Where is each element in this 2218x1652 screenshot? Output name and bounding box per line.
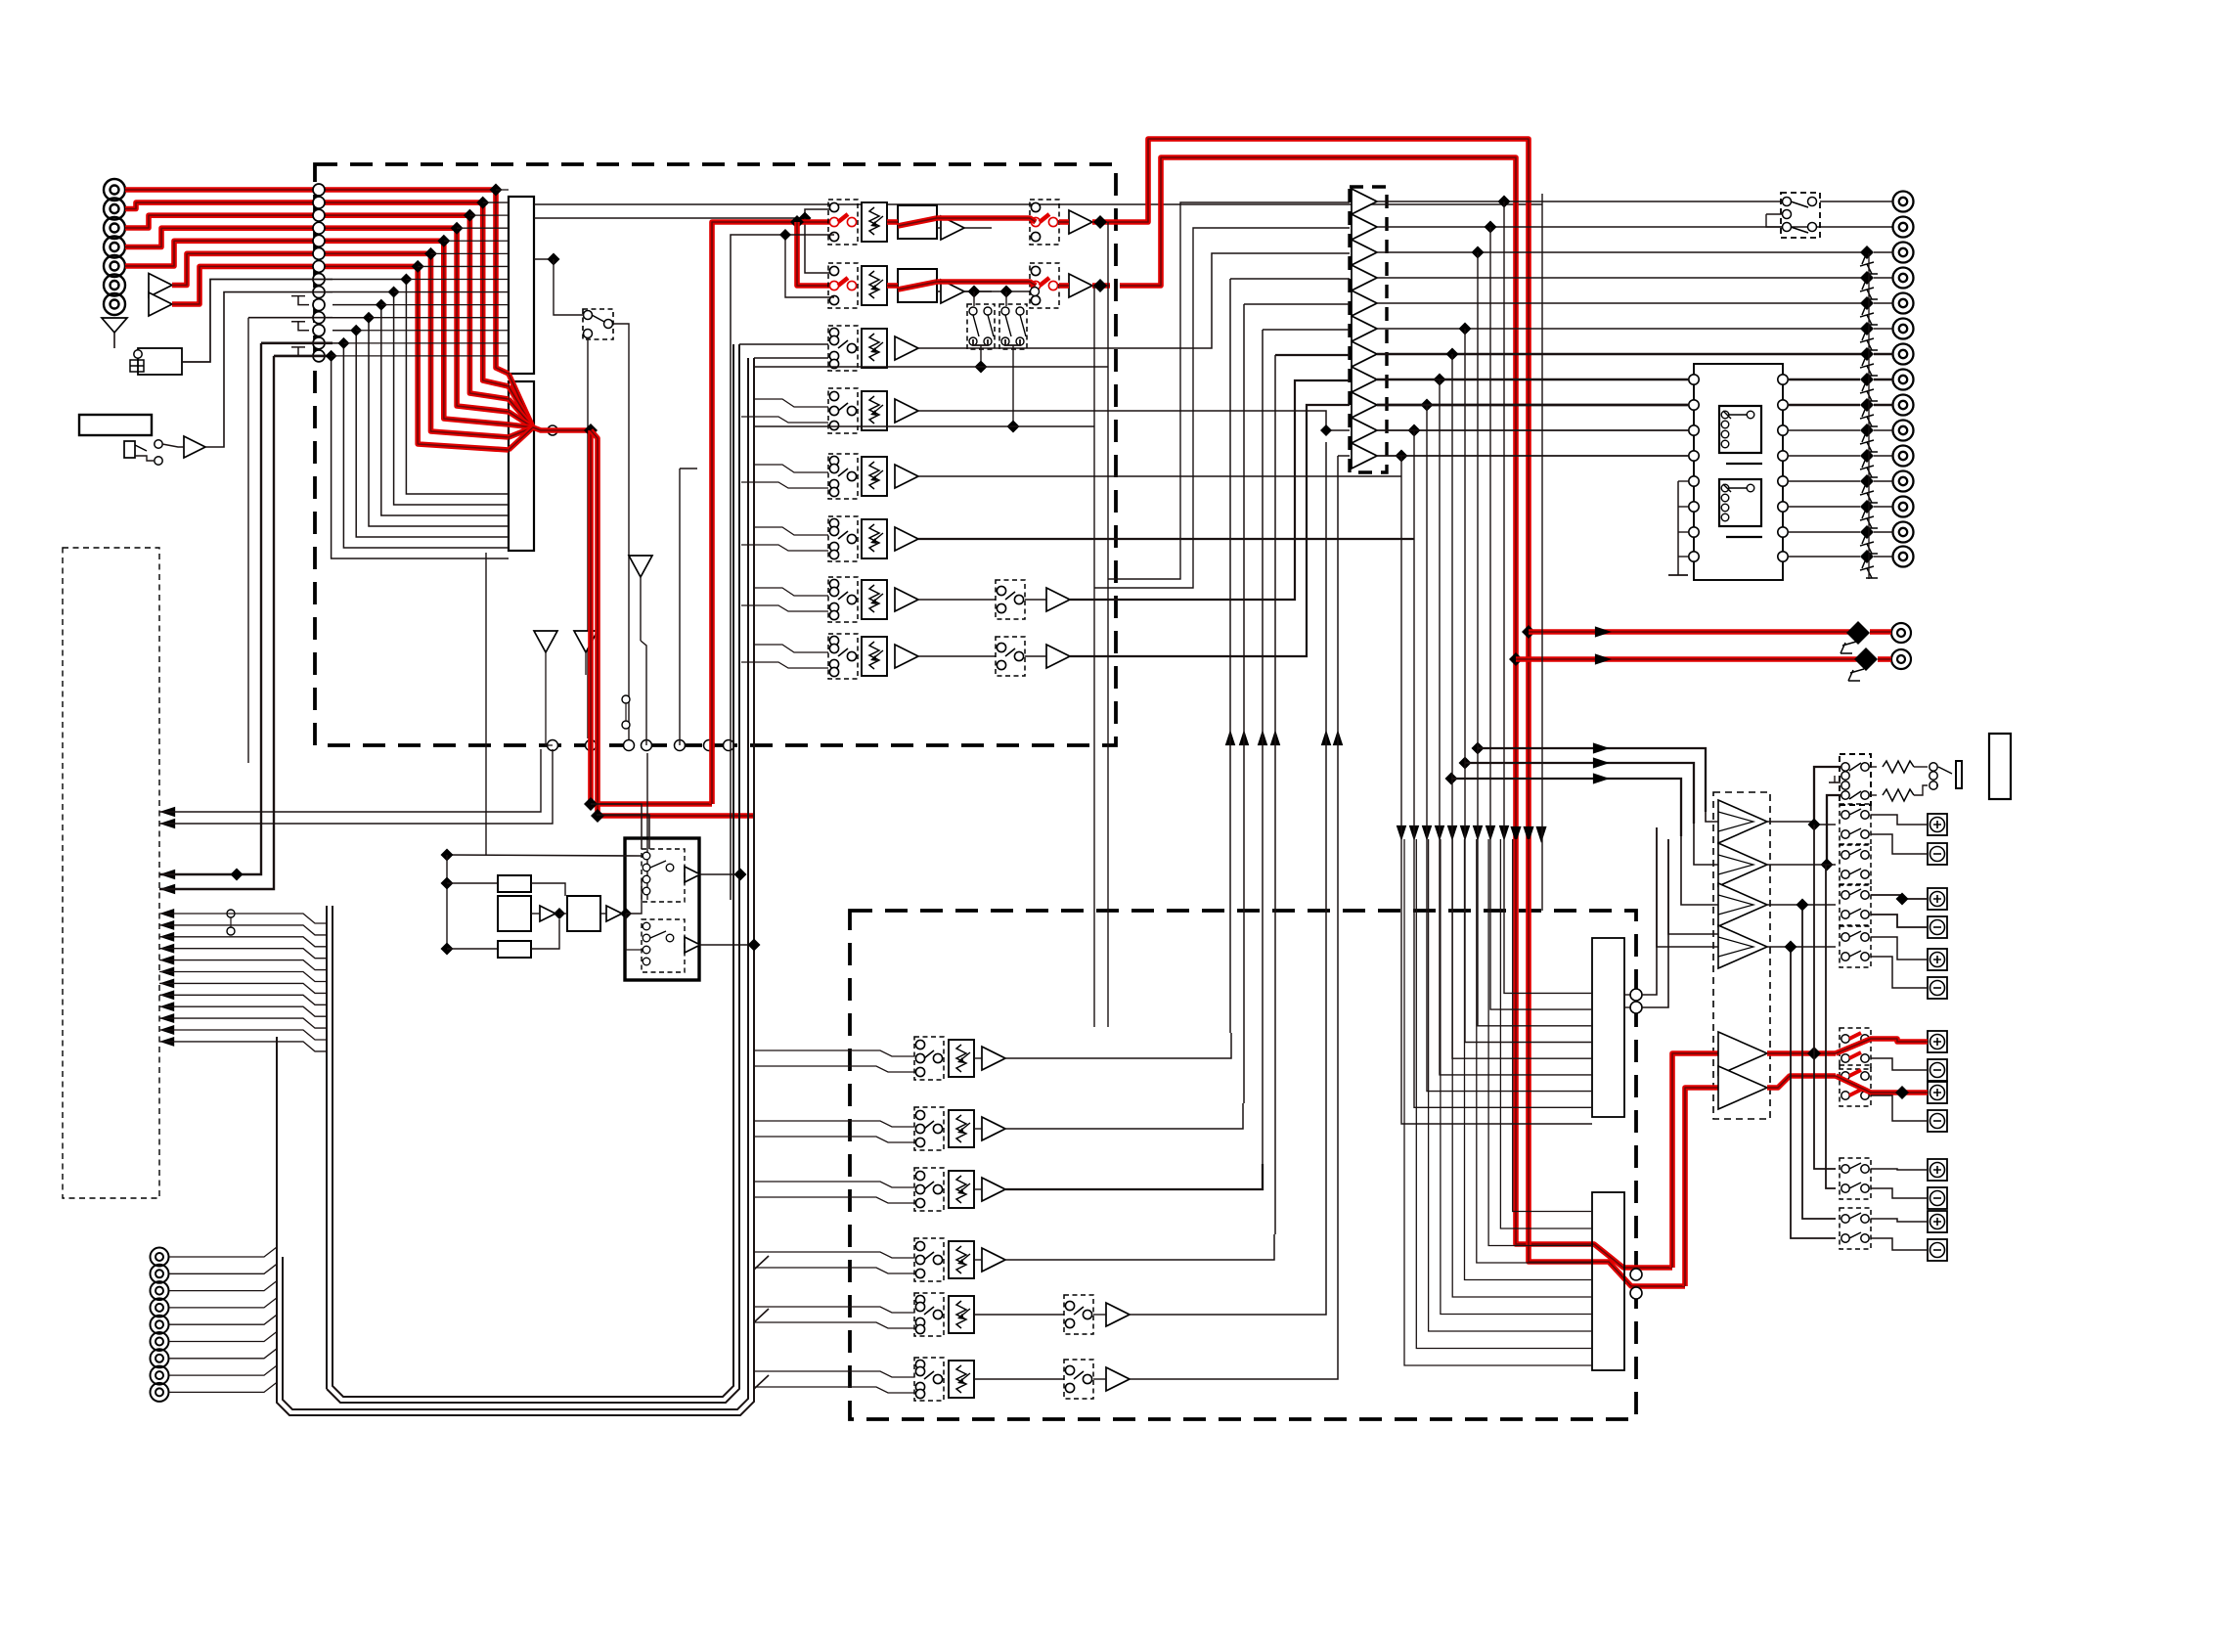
wire: feed tri1 — [1108, 202, 1350, 579]
output jack y=440 — [1893, 421, 1914, 441]
cable run outer edge2 — [283, 358, 748, 1409]
wire: vertical drop x=254 — [247, 318, 249, 763]
node: bus feedthrough 11 — [313, 312, 325, 324]
input jack J2 (phono/line) — [104, 199, 125, 220]
wire: tape in a6 — [755, 1371, 914, 1377]
wire: return to tri11 — [1338, 455, 1350, 457]
wire: tape mid 5 — [974, 1314, 1064, 1316]
rec amp 1 — [685, 867, 700, 882]
speaker switch row1 — [1840, 804, 1871, 845]
wire: buffer out row9 to relay box — [1377, 404, 1698, 406]
wire: bridge to term2- — [1871, 915, 1928, 927]
wire: M1 out riser 2 — [1642, 839, 1668, 1007]
remote jack R6 — [151, 1332, 169, 1351]
ground stub — [298, 322, 309, 331]
wire: rec feed top — [447, 855, 642, 856]
matrix box M2 — [1592, 1192, 1624, 1370]
wire: amp1 to sw — [1767, 822, 1836, 825]
power amp triangle red L — [1718, 1032, 1767, 1075]
wire: return to tri7 — [1275, 354, 1350, 356]
wire: ctl bus 1 — [159, 914, 327, 923]
balance box ch2 — [898, 269, 937, 302]
input select switch SW4 — [828, 388, 858, 433]
channel amp A7 — [895, 588, 918, 611]
muting switches pair 2 — [999, 304, 1027, 349]
red: riser to channel 1 — [712, 222, 834, 804]
tape select switch T6 — [914, 1358, 944, 1401]
wire: bus into M1 y=1032 — [1490, 227, 1592, 1009]
wire: tap to mute pair1 — [973, 291, 975, 306]
wire: remote 6 — [169, 1332, 277, 1342]
wire: tape return x=1304 — [1274, 355, 1276, 1234]
tape out amp 5 — [1106, 1303, 1130, 1326]
node: bus feedthrough 7 — [313, 260, 325, 272]
wire: ctl bus 2 — [159, 925, 327, 935]
function display rectangle — [79, 415, 152, 435]
red: to speaker terminal + R — [1767, 1076, 1836, 1088]
wire: tap into rect A — [483, 201, 509, 203]
wire: bus row8 into rect B — [333, 279, 509, 494]
wire: ch to aux switch — [918, 599, 996, 601]
wire: bus into M2 y=1273 — [1488, 839, 1592, 1246]
input select switch SW8 — [828, 634, 858, 679]
node: bus feedthrough 8 — [313, 273, 325, 285]
speaker terminal - 4 — [1928, 1059, 1947, 1081]
wire: rec riser to ch1 — [731, 235, 834, 900]
red: summed program to corner — [533, 427, 591, 430]
remote jack R1 — [151, 1248, 169, 1267]
muting switches pair 1 — [967, 304, 995, 349]
wire: tape out 2 — [1005, 1103, 1243, 1129]
node: bus feedthrough 12 — [313, 325, 325, 336]
power amp triangle 4 — [1718, 925, 1767, 968]
dashed box: monitor/tape block — [850, 911, 1636, 1419]
wire: return to tri5 — [1244, 303, 1350, 305]
wire: switch link — [1766, 214, 1782, 227]
level drop triangle 1 — [629, 556, 652, 577]
wire: remote 1 — [169, 1247, 277, 1257]
output switch SWB1 — [1030, 200, 1059, 245]
input select switch SW2 — [828, 263, 858, 308]
level drop triangle 2 — [534, 631, 557, 652]
matrix rect B (record select bank) — [509, 381, 534, 551]
wire: bus into M1 y=1015 — [1504, 201, 1592, 993]
wire: filler drop — [646, 753, 648, 900]
muting transistor row y=362 — [1860, 347, 1874, 361]
phono preamp box — [138, 348, 182, 375]
input jack J4 (phono/line) — [104, 237, 125, 258]
wire: tape mid 6 — [974, 1378, 1064, 1380]
record selector block — [625, 838, 699, 980]
output jack y=544 — [1893, 522, 1914, 543]
wire: ch to aux switch — [918, 655, 996, 657]
wire: bus into M1 y=1082 — [1452, 354, 1592, 1058]
rec select switch lower — [642, 919, 685, 972]
wire: ctl bus 9 — [159, 1006, 327, 1016]
speaker terminal - 6 — [1928, 1187, 1947, 1209]
wire: bus row10 into rect B — [333, 305, 509, 515]
speaker terminal - 2 — [1928, 916, 1947, 938]
wire: tape in a5 — [755, 1307, 914, 1313]
rec buffer 1 — [540, 906, 555, 921]
wire: tape in a1 — [755, 1050, 914, 1056]
wire: remote 2 — [169, 1264, 277, 1273]
wire: below triangle1 — [640, 577, 642, 641]
tape level VR1 — [949, 1040, 974, 1077]
muting transistor row y=258 — [1860, 246, 1874, 259]
wire: hp feed from amp1 — [1814, 767, 1841, 825]
line amp B2 — [1069, 274, 1092, 297]
speaker switch row extra1 — [1840, 1158, 1871, 1199]
speaker terminal + 4 — [1928, 1031, 1947, 1052]
wire: ch4 to tri10 — [918, 411, 1350, 430]
wire: relay out row y=466 — [1788, 455, 1860, 457]
input jack J1 (phono/line) — [104, 179, 125, 201]
buffer amp U8 — [1352, 367, 1377, 392]
wire: buffer out row10 to relay box — [1377, 429, 1698, 431]
wire: rec out upper to riser — [699, 873, 740, 875]
node: bus feedthrough 13 — [313, 337, 325, 349]
transistor base chain — [1868, 253, 1870, 579]
wire: bus into M2 y=1291 — [1477, 839, 1592, 1263]
level control VR6 — [862, 519, 887, 558]
buffer amp: line input R — [149, 292, 172, 316]
remote jack R8 — [151, 1366, 169, 1385]
output jack y=466 — [1893, 446, 1914, 467]
wire: bus into M2 y=1378 — [1416, 839, 1592, 1349]
wire: remote 9 — [169, 1382, 277, 1392]
wire: ch input feed a — [753, 399, 828, 407]
wire: ctl bus 6 — [159, 972, 327, 982]
wire: to jack1 — [1820, 201, 1893, 202]
speaker terminal + 2 — [1928, 888, 1947, 910]
output jack y=284 — [1893, 268, 1914, 289]
wire: relay out row y=569 — [1788, 556, 1860, 558]
input jack J3 (phono/line) — [104, 217, 125, 239]
wire: remote 7 — [169, 1349, 277, 1359]
buffer amp U10 — [1352, 418, 1377, 443]
line amp B1 — [1069, 210, 1092, 234]
buffer amp U7 — [1352, 341, 1377, 367]
wire: mute bus 1 — [755, 366, 1108, 368]
wire: program L into rec switch — [591, 804, 642, 849]
output jack 2 — [1893, 217, 1914, 238]
remote jack R7 — [151, 1349, 169, 1367]
thick control bus vertical — [326, 906, 328, 1389]
wire: ch input feed b — [741, 417, 828, 423]
red fan ray — [509, 427, 533, 450]
dashed box: power amplifier block — [1713, 792, 1770, 1119]
wire: bridge to term2+ — [1871, 895, 1928, 899]
wire: tape in b3 — [755, 1197, 914, 1203]
wire: remote 5 — [169, 1315, 277, 1324]
wire: gnd to phono box — [113, 333, 115, 348]
wire: tape riser 1 out — [739, 343, 828, 345]
ground stub — [298, 296, 309, 305]
red: down arrows — [1510, 826, 1521, 843]
wire: term7+ — [1871, 1219, 1928, 1222]
wire: ch input feed a — [753, 527, 828, 535]
dashed box: control section (left) — [63, 548, 159, 1198]
rec out jack L — [1891, 623, 1911, 643]
mode switch small — [622, 695, 630, 703]
tape select switch T2 — [914, 1107, 944, 1150]
wire: ctl b — [159, 749, 553, 824]
tape level VR2 — [949, 1110, 974, 1147]
wire: ctl bus 4 — [159, 949, 327, 959]
output jack y=336 — [1893, 319, 1914, 339]
red: to speaker terminal + L — [1767, 1050, 1836, 1056]
wire: bus into M1 y=1115 — [1427, 405, 1592, 1092]
wire: bus row12 into rect B — [333, 331, 509, 537]
speaker switch row red L — [1840, 1028, 1871, 1069]
wire: amp feed 1 — [1478, 748, 1706, 812]
vertical bus bundle down-arrows — [1397, 826, 1407, 841]
wire: bus into M2 y=1361 — [1429, 839, 1592, 1331]
wire: ch input feed b — [741, 482, 828, 488]
wire: tap into rect A — [444, 240, 509, 242]
small switch on control line — [227, 910, 235, 917]
mic buffer amp — [184, 436, 205, 458]
wire: tape out 4 — [1005, 1234, 1274, 1260]
tape monitor switch — [583, 309, 613, 339]
relay box ground rail — [1677, 481, 1679, 572]
rec out jack R — [1891, 649, 1911, 669]
output jack y=414 — [1893, 395, 1914, 416]
wire: ch5 out — [918, 475, 1401, 477]
wire: tape bus down L — [159, 343, 261, 874]
wire: bus into M1 y=1149 — [1401, 456, 1592, 1124]
input jack J6 (phono/line) — [104, 275, 125, 296]
wire: buffer out row2 to jack — [1377, 226, 1893, 228]
output jack y=569 — [1893, 547, 1914, 567]
wire: ch input feed b — [741, 662, 828, 668]
wire: term6+ — [1871, 1169, 1928, 1170]
wire: ch1 tap long drop — [1107, 222, 1109, 1027]
wire: term4- — [1871, 1058, 1928, 1070]
mute pair bottom links — [973, 339, 988, 345]
wire: bus into M2 y=1396 — [1404, 839, 1592, 1365]
rec amp 2 — [685, 937, 700, 953]
input jack J5 (phono/line) — [104, 255, 125, 277]
wire: tape in b2 — [755, 1137, 914, 1142]
buffer amp U1 — [1352, 189, 1377, 214]
wire: relay out row y=414 — [1788, 404, 1860, 406]
output jack y=492 — [1893, 471, 1914, 492]
wire: ctl bus 12 — [159, 1042, 327, 1051]
level control VR3 — [862, 329, 887, 368]
wire: bus into M2 y=1308 — [1465, 839, 1593, 1280]
wire: speaker rail B — [1826, 865, 1836, 1188]
wire: ch3 to tri3 — [918, 253, 1350, 348]
aux amp y=671 — [1046, 645, 1070, 668]
matrix box M1 — [1592, 938, 1624, 1117]
wire: bus out y=265 — [534, 258, 554, 260]
wire: tap into rect A lower — [406, 278, 509, 280]
channel amp A3 — [895, 336, 918, 360]
wire: ch input feed a — [753, 588, 828, 596]
node: bus feedthrough 3 — [313, 209, 325, 221]
wire: ctl bus 11 — [159, 1030, 327, 1040]
wire: bus into M1 y=1098 — [1440, 380, 1592, 1075]
wire: monitor sw out drop — [613, 324, 629, 745]
wire: tape return x=1356 — [1325, 442, 1327, 1289]
speaker terminal + 3 — [1928, 949, 1947, 970]
wire: ctl bus 10 — [159, 1018, 327, 1028]
headphone jack — [1936, 767, 1952, 785]
wire: tape return x=1258 — [1229, 279, 1231, 1033]
red: branch to channel 2 — [797, 222, 834, 286]
wire: tap into rect A — [496, 189, 509, 191]
tape return verticals with up arrows — [1225, 730, 1236, 745]
wire: bus into M2 y=1343 — [1441, 839, 1592, 1315]
buffer amp: line input L — [149, 274, 172, 297]
phono input cap — [130, 360, 144, 372]
level control VR2 — [862, 266, 887, 305]
wire: tap into rect A — [469, 214, 509, 216]
wire: buffer out row6 — [1377, 328, 1864, 330]
wire: speaker rail D — [1791, 947, 1836, 1238]
tape out switch 5 — [1064, 1295, 1093, 1334]
wire: ch input feed b — [741, 545, 828, 551]
speaker terminal + 5 — [1928, 1082, 1947, 1103]
red: down left leg — [591, 430, 712, 804]
level control VR8 — [862, 637, 887, 676]
input select switch SW7 — [828, 577, 858, 622]
buffer amp U3 — [1352, 240, 1377, 265]
wire: ctl bus 8 — [159, 995, 327, 1005]
wire: amp3 out — [1767, 904, 1836, 906]
matrix rect A (input switch bank) — [509, 197, 534, 374]
tape select switch T5 — [914, 1293, 944, 1336]
wire: tape bus down R — [159, 356, 274, 889]
wire: tape out 3 — [1005, 1164, 1263, 1189]
wire: drop x=695 — [679, 469, 681, 745]
wire: remote 8 — [169, 1365, 277, 1375]
node: fan output circle — [548, 425, 557, 435]
tape level VR4 — [949, 1241, 974, 1278]
wire: tape return x=1272 — [1243, 304, 1245, 1103]
wire: branch ch2 bottom — [785, 235, 834, 297]
input select switch SW3 — [828, 326, 858, 371]
wire: sw to term3- — [1871, 957, 1928, 988]
speaker switch row4 — [1840, 926, 1871, 967]
wire: rec feed from rect B — [485, 553, 487, 855]
wire: tape bus row14 (thick) — [274, 355, 333, 358]
red fan ray — [509, 412, 533, 427]
dashed box: input selector / preamp block — [315, 164, 1116, 745]
node: feedthrough red R — [1630, 1287, 1642, 1299]
wire: switch down — [587, 337, 589, 738]
ch2 amp out line with taps — [964, 290, 1031, 292]
cable run inner — [327, 344, 739, 1403]
cable run inner edge2 — [333, 344, 733, 1397]
red through balance — [898, 282, 937, 290]
wire: buffer out row11 to relay box — [1377, 455, 1698, 457]
level control VR1 — [862, 202, 887, 242]
speaker switch row3 (bridge) — [1840, 884, 1871, 925]
buffer amp U6 — [1352, 316, 1377, 341]
wire: amp2 out — [1767, 864, 1836, 866]
hp resistor L — [1883, 761, 1914, 773]
power amp triangle 1 — [1718, 800, 1767, 843]
muting transistor row y=336 — [1860, 322, 1874, 335]
wire: tape in b4 — [755, 1268, 914, 1273]
tape out amp 6 — [1106, 1367, 1130, 1391]
red fan ray — [509, 386, 533, 427]
wire: to monitor switch — [554, 259, 584, 315]
node: bus feedthrough 14 — [313, 350, 325, 362]
speaker switch row2 — [1840, 844, 1871, 885]
wire: return to tri6 — [1263, 329, 1350, 331]
wire: ctl bus 3 — [159, 937, 327, 947]
wire: amp4 feed — [1657, 827, 1718, 947]
wire: tap into rect A lower — [394, 291, 509, 293]
wire: return to tri4 — [1230, 278, 1350, 280]
buffer amp U9 — [1352, 392, 1377, 418]
tape amp T2 — [982, 1117, 1005, 1140]
node: bus feedthrough 9 — [313, 287, 325, 298]
node: feedthrough red L — [1630, 1269, 1642, 1280]
wire: buffer out row4 — [1377, 277, 1864, 279]
balance box ch1 — [898, 205, 937, 239]
red signal path: selected input wires — [125, 187, 333, 193]
wire: ch input feed a — [753, 465, 828, 472]
wire: term7- — [1871, 1238, 1928, 1250]
cable run outer — [277, 358, 754, 1415]
rec matrix box 3 — [567, 896, 600, 931]
input jack J7 (phono/line) — [104, 293, 125, 315]
wire: mic out to row9 — [205, 292, 333, 447]
wire: bus into M1 y=1065 — [1465, 329, 1592, 1043]
relay unit 1 — [1719, 406, 1761, 453]
tape level VR3 — [949, 1171, 974, 1208]
wire: amp feed 3 — [1451, 779, 1681, 836]
red fan ray — [509, 427, 533, 437]
wire: bus out y=209 (long) — [534, 203, 1542, 205]
wire: ch8 to tri9 — [1070, 405, 1350, 656]
buffer amp U11 — [1352, 443, 1377, 469]
node: bus feedthrough 4 — [313, 222, 325, 234]
wire: buffer out row1 to speaker switch — [1377, 201, 1781, 202]
wire: ch input feed b — [741, 605, 828, 611]
power amp triangle 2 — [1718, 843, 1767, 886]
wire: bus row13 into rect B — [333, 343, 509, 548]
headphone switch box — [1840, 754, 1871, 805]
wire: mic to buffer — [162, 444, 184, 447]
relay/protection box — [1694, 364, 1783, 580]
red through balance — [898, 218, 937, 226]
red: down left leg 2 — [591, 430, 753, 816]
level control VR7 — [862, 580, 887, 619]
wire: buffer out row3 — [1377, 251, 1864, 253]
channel amp A1 — [941, 216, 964, 240]
wire: relay out row y=388 — [1788, 379, 1860, 380]
speaker terminal - 3 — [1928, 977, 1947, 999]
wire: buffer out row7 — [1377, 353, 1864, 355]
wire: tap into rect A — [457, 227, 509, 229]
tape amp T1 — [982, 1047, 1005, 1070]
wire: bus row14 into rect B — [332, 356, 509, 558]
wire: phono out to row8 — [182, 279, 333, 362]
tape select switch T3 — [914, 1168, 944, 1211]
speaker terminal - 7 — [1928, 1239, 1947, 1261]
wire: ch amp out join — [964, 227, 992, 229]
red fan ray — [509, 424, 533, 427]
red: rec out R — [1516, 656, 1859, 662]
wire: amp riser 2 — [1668, 839, 1718, 934]
wire: tap into rect A lower — [369, 317, 509, 319]
